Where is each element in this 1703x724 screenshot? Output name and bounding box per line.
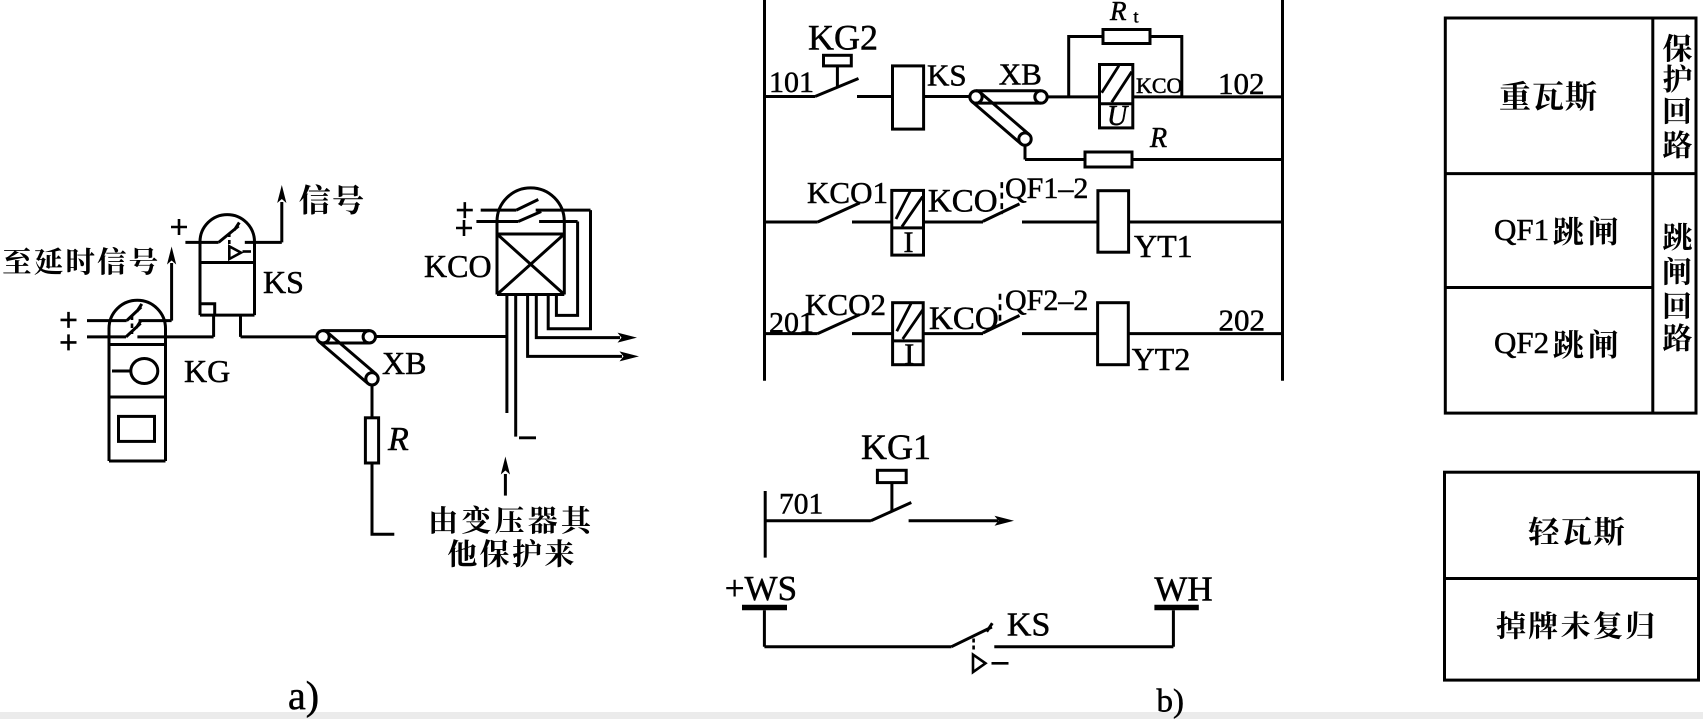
- svg-text:YT2: YT2: [1132, 341, 1191, 377]
- svg-text:t: t: [1134, 7, 1139, 27]
- svg-text:QF2–2: QF2–2: [1005, 284, 1088, 317]
- svg-text:KG2: KG2: [808, 17, 878, 57]
- svg-text:KS: KS: [927, 57, 967, 92]
- svg-text:YT1: YT1: [1134, 228, 1193, 264]
- svg-text:KS: KS: [263, 264, 304, 300]
- svg-text:R: R: [1149, 123, 1167, 154]
- svg-text:101: 101: [769, 66, 814, 99]
- svg-text:KCO: KCO: [1136, 73, 1182, 98]
- svg-text:KCO: KCO: [929, 301, 999, 337]
- svg-text:b): b): [1157, 683, 1185, 719]
- svg-text:I: I: [904, 338, 914, 371]
- svg-text:+WS: +WS: [725, 569, 797, 608]
- svg-text:WH: WH: [1154, 570, 1212, 609]
- svg-text:KCO: KCO: [928, 184, 998, 220]
- svg-text:QF2: QF2: [1494, 325, 1549, 360]
- svg-text:KG1: KG1: [861, 427, 931, 467]
- svg-text:KCO1: KCO1: [807, 175, 888, 210]
- svg-text:KS: KS: [1007, 607, 1050, 644]
- svg-text:701: 701: [779, 489, 823, 521]
- svg-text:I: I: [904, 226, 914, 259]
- svg-text:XB: XB: [999, 57, 1042, 92]
- svg-text:R: R: [1109, 0, 1127, 26]
- svg-text:a): a): [288, 673, 319, 718]
- svg-text:QF1–2: QF1–2: [1005, 172, 1088, 205]
- svg-text:KG: KG: [184, 353, 230, 389]
- svg-text:202: 202: [1219, 303, 1266, 338]
- svg-text:U: U: [1107, 101, 1129, 132]
- svg-text:QF1: QF1: [1494, 212, 1549, 247]
- svg-text:XB: XB: [382, 345, 426, 381]
- svg-text:R: R: [387, 421, 409, 458]
- svg-text:102: 102: [1218, 66, 1265, 101]
- svg-text:KCO: KCO: [424, 248, 492, 284]
- svg-text:KCO2: KCO2: [805, 287, 886, 322]
